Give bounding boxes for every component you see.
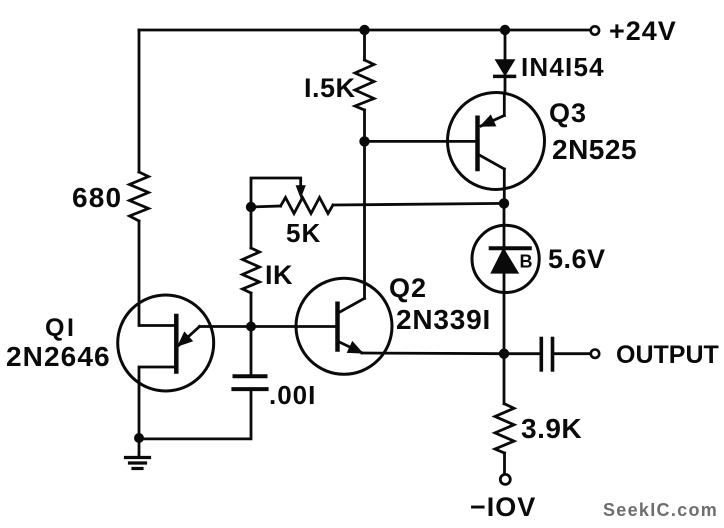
svg-text:B: B bbox=[520, 252, 533, 272]
svg-text:2N2646: 2N2646 bbox=[6, 341, 111, 372]
svg-text:+24V: +24V bbox=[609, 16, 677, 46]
terminal -10V bbox=[500, 474, 510, 484]
ground bbox=[126, 438, 150, 469]
wire left rail upper (top corner to 680) bbox=[138, 30, 141, 172]
transistor Q3 circle bbox=[448, 93, 545, 190]
junction dot output node bbox=[499, 349, 509, 359]
transistor Q3 base bar bbox=[475, 118, 480, 169]
junction dot 1.5K bottom / Q3 base bbox=[359, 136, 369, 146]
resistor 1K bbox=[243, 207, 260, 327]
svg-text:IK: IK bbox=[265, 260, 293, 290]
wire 1.5K bottom to junction bbox=[363, 110, 366, 141]
svg-text:−IOV: −IOV bbox=[470, 492, 536, 522]
junction dot 1.5K top bbox=[359, 25, 369, 35]
resistor 3.9K bbox=[495, 404, 514, 453]
transistor Q3 collector lead bbox=[479, 155, 505, 204]
wire Q1 emitter to node A bbox=[200, 325, 251, 328]
svg-text:680: 680 bbox=[72, 182, 122, 213]
svg-text:Q2: Q2 bbox=[389, 273, 427, 303]
wire output node to 3.9K bbox=[503, 354, 506, 404]
resistor 1.5K bbox=[355, 60, 374, 110]
svg-text:5K: 5K bbox=[286, 218, 321, 248]
terminal OUTPUT bbox=[591, 350, 599, 358]
svg-text:Q3: Q3 bbox=[549, 98, 587, 128]
ground junction dot bbox=[134, 433, 144, 443]
svg-text:IN4I54: IN4I54 bbox=[521, 52, 605, 82]
capacitor .001 bbox=[233, 327, 266, 390]
transistor Q1 emitter arrow bbox=[179, 327, 200, 346]
terminal +24V bbox=[591, 26, 599, 34]
svg-text:3.9K: 3.9K bbox=[521, 413, 582, 444]
node A junction dot bbox=[246, 322, 256, 332]
transistor Q3 emitter arrow (top) bbox=[481, 94, 504, 127]
transistor Q2 emitter arrow bbox=[339, 342, 362, 353]
zener diode cathode bar bbox=[491, 246, 530, 250]
svg-text:QI: QI bbox=[45, 314, 76, 342]
transistor Q2 collector lead bbox=[339, 298, 365, 312]
zener diode triangle bbox=[492, 249, 518, 273]
svg-text:2N525: 2N525 bbox=[552, 134, 637, 165]
resistor 680 bbox=[130, 172, 149, 221]
transistor Q2 circle bbox=[296, 278, 392, 374]
wire top rail +24V bbox=[139, 29, 590, 32]
node B junction dot (pot/1K) bbox=[246, 202, 256, 212]
wire 1.5K top junction to resistor bbox=[363, 30, 366, 60]
wire 3.9K to -10V terminal bbox=[503, 453, 506, 474]
svg-text:SeekIC.com: SeekIC.com bbox=[603, 500, 718, 520]
potentiometer 5K bbox=[251, 198, 504, 214]
junction dot Q3 collector / zener bbox=[499, 198, 509, 208]
svg-text:5.6V: 5.6V bbox=[548, 244, 606, 274]
wire junction to Q3 base bbox=[365, 140, 478, 143]
svg-text:.00I: .00I bbox=[269, 380, 316, 410]
wire junction down to Q2 collector bbox=[363, 141, 366, 298]
transistor Q1 circle bbox=[118, 295, 214, 391]
junction dot +24V rail / diode bbox=[500, 25, 510, 35]
svg-text:2N339I: 2N339I bbox=[396, 304, 491, 335]
potentiometer 5K wiper loop bbox=[251, 178, 305, 207]
transistor Q2 base bar bbox=[335, 304, 340, 350]
wire Q2 emitter to output node bbox=[362, 352, 504, 356]
wire ground to .001 bottom bbox=[139, 389, 251, 439]
wire node A to Q2 base bbox=[251, 325, 338, 328]
capacitor output coupling bbox=[541, 339, 590, 370]
svg-text:OUTPUT: OUTPUT bbox=[616, 341, 719, 369]
zener diode vertical wire bbox=[503, 203, 506, 353]
diode 1N4154 bbox=[495, 30, 515, 94]
svg-text:I.5K: I.5K bbox=[304, 73, 356, 103]
transistor Q1 base bar bbox=[174, 316, 179, 372]
wire left rail lower (680 to Q1 base2) bbox=[139, 221, 176, 326]
wire output node to coupling cap bbox=[504, 352, 541, 355]
zener diode B circle bbox=[472, 225, 539, 292]
wire Q1 base1 to ground bbox=[139, 367, 176, 438]
